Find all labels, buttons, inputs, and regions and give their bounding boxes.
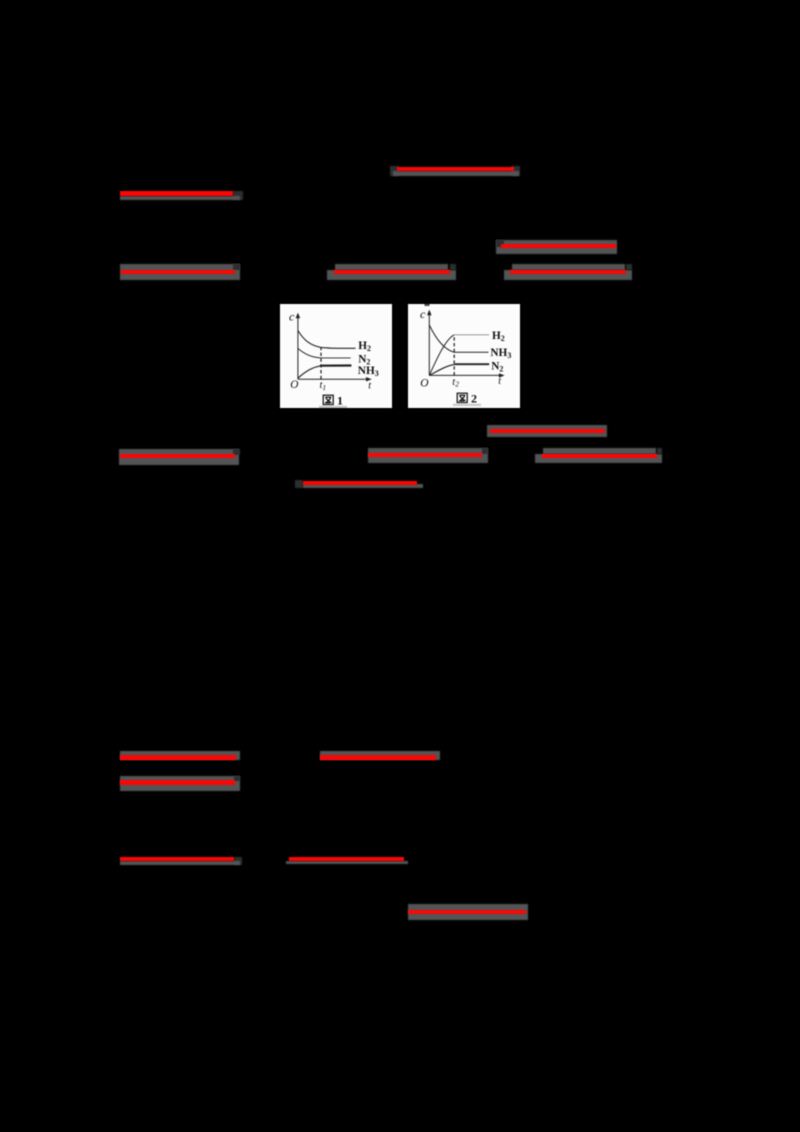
svg-text:NH3: NH3 xyxy=(358,365,379,378)
svg-text:H2: H2 xyxy=(492,330,505,343)
NH3 curve xyxy=(298,366,321,378)
svg-text:O: O xyxy=(420,377,429,389)
redline row4 a: red bar xyxy=(121,270,235,274)
redline row9: red bar xyxy=(120,780,235,785)
redline row8 a: red bar xyxy=(120,755,236,760)
redline row1 right: caps xyxy=(390,166,399,176)
svg-text:c: c xyxy=(420,307,426,321)
redline row10 a: red bar xyxy=(120,857,234,861)
redline row6 c: red bar xyxy=(542,454,657,458)
svg-text:t2: t2 xyxy=(452,377,459,389)
N2 curve xyxy=(298,349,351,358)
figure 1 box xyxy=(280,304,392,408)
dashed line t1 xyxy=(320,348,322,380)
redline row4 a: gray block xyxy=(120,264,240,280)
svg-text:H2: H2 xyxy=(358,340,371,353)
H2 flat light line xyxy=(454,334,489,336)
svg-text:t: t xyxy=(498,376,501,387)
redline row6 a: gray block xyxy=(119,449,239,465)
redline row7: red bar xyxy=(303,481,417,485)
svg-text:t: t xyxy=(368,380,372,391)
svg-text:1: 1 xyxy=(337,394,343,408)
y-axis xyxy=(428,314,430,376)
redline row5 right: red bar xyxy=(490,429,605,433)
H2 curve xyxy=(298,331,356,349)
redline row6 b: red bar xyxy=(368,453,482,457)
redline row10 b: red bar xyxy=(289,857,404,861)
svg-text:N2: N2 xyxy=(491,360,503,373)
redline row1 right: red bar xyxy=(397,167,514,171)
svg-text:2: 2 xyxy=(471,392,477,406)
redline row5 right: gray block xyxy=(487,425,607,437)
scan smudge at top edge xyxy=(425,304,430,306)
redline row3 right: gray block xyxy=(496,240,617,254)
redline row8 b: red bar xyxy=(320,755,436,760)
svg-text:t1: t1 xyxy=(320,380,327,392)
redline row4 c: red bar xyxy=(510,270,626,274)
redline row8 b: gray block xyxy=(320,751,440,760)
redline row4 b: red bar xyxy=(334,270,450,274)
svg-text:O: O xyxy=(290,379,298,391)
N2 rising curve xyxy=(429,364,456,375)
redline row10 b: gray shadow xyxy=(286,861,408,864)
caption shadow strip fig2 xyxy=(453,404,481,406)
redline row10 a: cap xyxy=(234,857,242,865)
redline row9: gray block xyxy=(120,776,240,791)
redline row7: cap xyxy=(295,480,303,488)
redline row11: gray block xyxy=(408,904,528,920)
svg-text:NH3: NH3 xyxy=(490,347,511,360)
redline row11: red bar xyxy=(408,910,526,914)
x-axis xyxy=(298,378,368,380)
redline row10 a: gray shadow xyxy=(120,861,240,865)
caption shadow strip fig1 xyxy=(319,406,347,408)
dashed line t2 xyxy=(453,335,455,376)
redline row2 left: cap xyxy=(233,191,243,200)
x-axis xyxy=(429,374,500,376)
y-axis xyxy=(297,317,299,380)
redline row6 b: gray block xyxy=(368,448,488,463)
caption 图 2 xyxy=(457,393,467,402)
redline row8 a: gray block xyxy=(120,751,240,760)
H2 rising curve xyxy=(429,335,454,376)
caption 图 1 xyxy=(323,395,333,404)
redline row3 right: red bar xyxy=(501,244,616,248)
redline row2 left: gray shadow xyxy=(120,196,240,200)
redline row4 c: gray block xyxy=(512,264,625,270)
redline row6 c: gray block xyxy=(543,448,656,454)
redline row4 b: gray block xyxy=(335,264,448,270)
NH3 descending curve xyxy=(429,325,488,352)
redline row6 a: red bar xyxy=(120,454,235,458)
redline row1 right: gray shadow xyxy=(393,171,519,176)
redline row2 left: red bar xyxy=(120,191,233,196)
figure 2 box xyxy=(408,304,520,408)
svg-text:c: c xyxy=(289,310,295,324)
redline row7: gray shadow xyxy=(303,484,423,488)
